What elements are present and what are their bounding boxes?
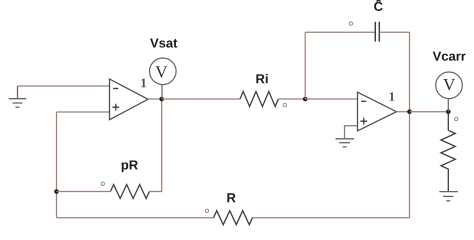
voltmeter XMM1 (Vsat) [150, 58, 177, 85]
node marker R [205, 209, 208, 212]
wire: right vertical rail (U2 output junction to bottom rail) [409, 112, 411, 218]
wire: voltmeter Vsat stem [161, 85, 163, 99]
wire: U1 non-inverting input [57, 111, 110, 113]
wire: bottom rail left segment [57, 217, 214, 219]
wire: left vertical (U1 + input down to bottom rail) [56, 112, 58, 218]
node junction: feedback divider node [54, 189, 59, 194]
wire: U2 output to junction J3 [397, 111, 410, 113]
node marker capacitor [349, 22, 352, 25]
resistor R1 (load, vertical) [441, 112, 455, 192]
wire: GND1 to U1 inverting input [18, 85, 110, 87]
ground GND1 [9, 86, 27, 107]
op-amp U2 [358, 92, 397, 131]
node junction J4: Vcarr node [446, 109, 451, 114]
resistor pR [110, 185, 149, 199]
wire: bottom rail right segment [253, 217, 410, 219]
label Vsat [150, 39, 177, 48]
wire: divider node to pR [57, 191, 111, 193]
wire: capacitor right plate to right rail [379, 31, 409, 33]
wire: Ri to J2 [278, 98, 305, 100]
wire: J3 to Vcarr node [410, 111, 449, 113]
capacitor C [375, 22, 379, 42]
wire: pR to U1 output node [149, 99, 161, 192]
op-amp U1 [110, 79, 149, 120]
wire: top rail to capacitor left plate [305, 31, 374, 33]
net label 1 (U2 output) [390, 92, 395, 101]
wire: right vertical rail (capacitor to U2 output junction) [409, 32, 411, 112]
net label 1 (U1 output) [141, 79, 146, 88]
node junction J3: U2 output [407, 109, 412, 114]
node junction J2: integrator input node [303, 97, 308, 102]
label Vcarr [433, 52, 466, 61]
resistor Ri [240, 92, 278, 107]
node marker load resistor [455, 117, 458, 120]
resistor R [214, 211, 253, 225]
label Ri [256, 74, 267, 83]
wire: voltmeter Vcarr stem [447, 99, 449, 112]
ground GND2 [336, 139, 355, 147]
voltmeter XMM2 (Vcarr) [436, 72, 463, 99]
node marker pR [101, 182, 104, 185]
wire: J2 to U2 inverting input [305, 98, 357, 100]
node junction J1: U1 output [159, 97, 164, 102]
wire: J1 to Ri [162, 98, 240, 100]
label R [227, 193, 235, 202]
wire: U2 non-inverting input stub [345, 126, 358, 139]
node marker Ri [283, 103, 286, 106]
label pR [122, 160, 138, 172]
label C [374, 0, 383, 11]
ground GND3 [439, 192, 458, 201]
wire: U1 output to junction [148, 98, 162, 100]
wire: J2 up to capacitor [304, 32, 306, 99]
